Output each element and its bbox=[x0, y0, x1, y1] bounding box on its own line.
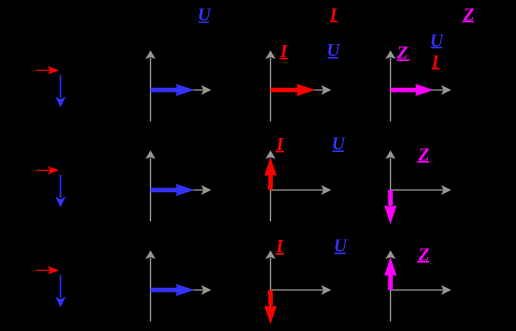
axes row2 col4 bbox=[386, 151, 450, 221]
label Z row1 col4 bbox=[396, 42, 410, 62]
label Z row3 col4 bbox=[417, 244, 429, 264]
axes row3 col4 bbox=[386, 251, 450, 321]
indicator row 1 (I arrow red, U arrow blue) bbox=[37, 67, 65, 106]
axes row1 col3 bbox=[266, 51, 330, 121]
label I row3 col3 bbox=[275, 236, 284, 256]
axes row3 col3 bbox=[266, 251, 330, 321]
label I row1 col4 bbox=[431, 52, 440, 72]
axes row1 col4 bbox=[386, 51, 450, 121]
phasor Z row1 (magenta, +x) bbox=[391, 85, 433, 96]
label I row2 col3 bbox=[275, 134, 284, 154]
axes row2 col3 bbox=[266, 151, 330, 221]
axes row1 col2 bbox=[146, 51, 210, 121]
phasor I row1 (red, +x) bbox=[271, 85, 314, 96]
indicator row 3 bbox=[37, 267, 65, 306]
indicator row 2 bbox=[37, 167, 65, 206]
svg-text:U: U bbox=[198, 4, 212, 24]
label U row2 col3 bbox=[332, 133, 346, 153]
label I row1 col3 bbox=[279, 41, 288, 61]
label Z row2 col4 bbox=[417, 144, 429, 164]
phasor U row1 (blue, +x) bbox=[151, 85, 193, 96]
label U row1 col3 bbox=[327, 40, 341, 60]
label U column header bbox=[198, 4, 212, 24]
axes row3 col2 bbox=[146, 251, 210, 321]
phasor Z row2 (magenta, -y down) bbox=[385, 190, 396, 223]
label U row1 col4 bbox=[430, 30, 444, 50]
phasor U row3 (blue, +x) bbox=[151, 285, 193, 296]
axes row2 col2 bbox=[146, 151, 210, 221]
phasor U row2 (blue, +x) bbox=[151, 185, 193, 196]
label I column header bbox=[329, 5, 338, 25]
phasor I row2 (red, +y up) bbox=[265, 159, 276, 190]
phasor I row3 (red, -y down) bbox=[265, 290, 276, 323]
label Z column header bbox=[462, 4, 474, 24]
phasor Z row3 (magenta, +y up) bbox=[385, 259, 396, 290]
label U row3 col3 bbox=[334, 236, 348, 256]
